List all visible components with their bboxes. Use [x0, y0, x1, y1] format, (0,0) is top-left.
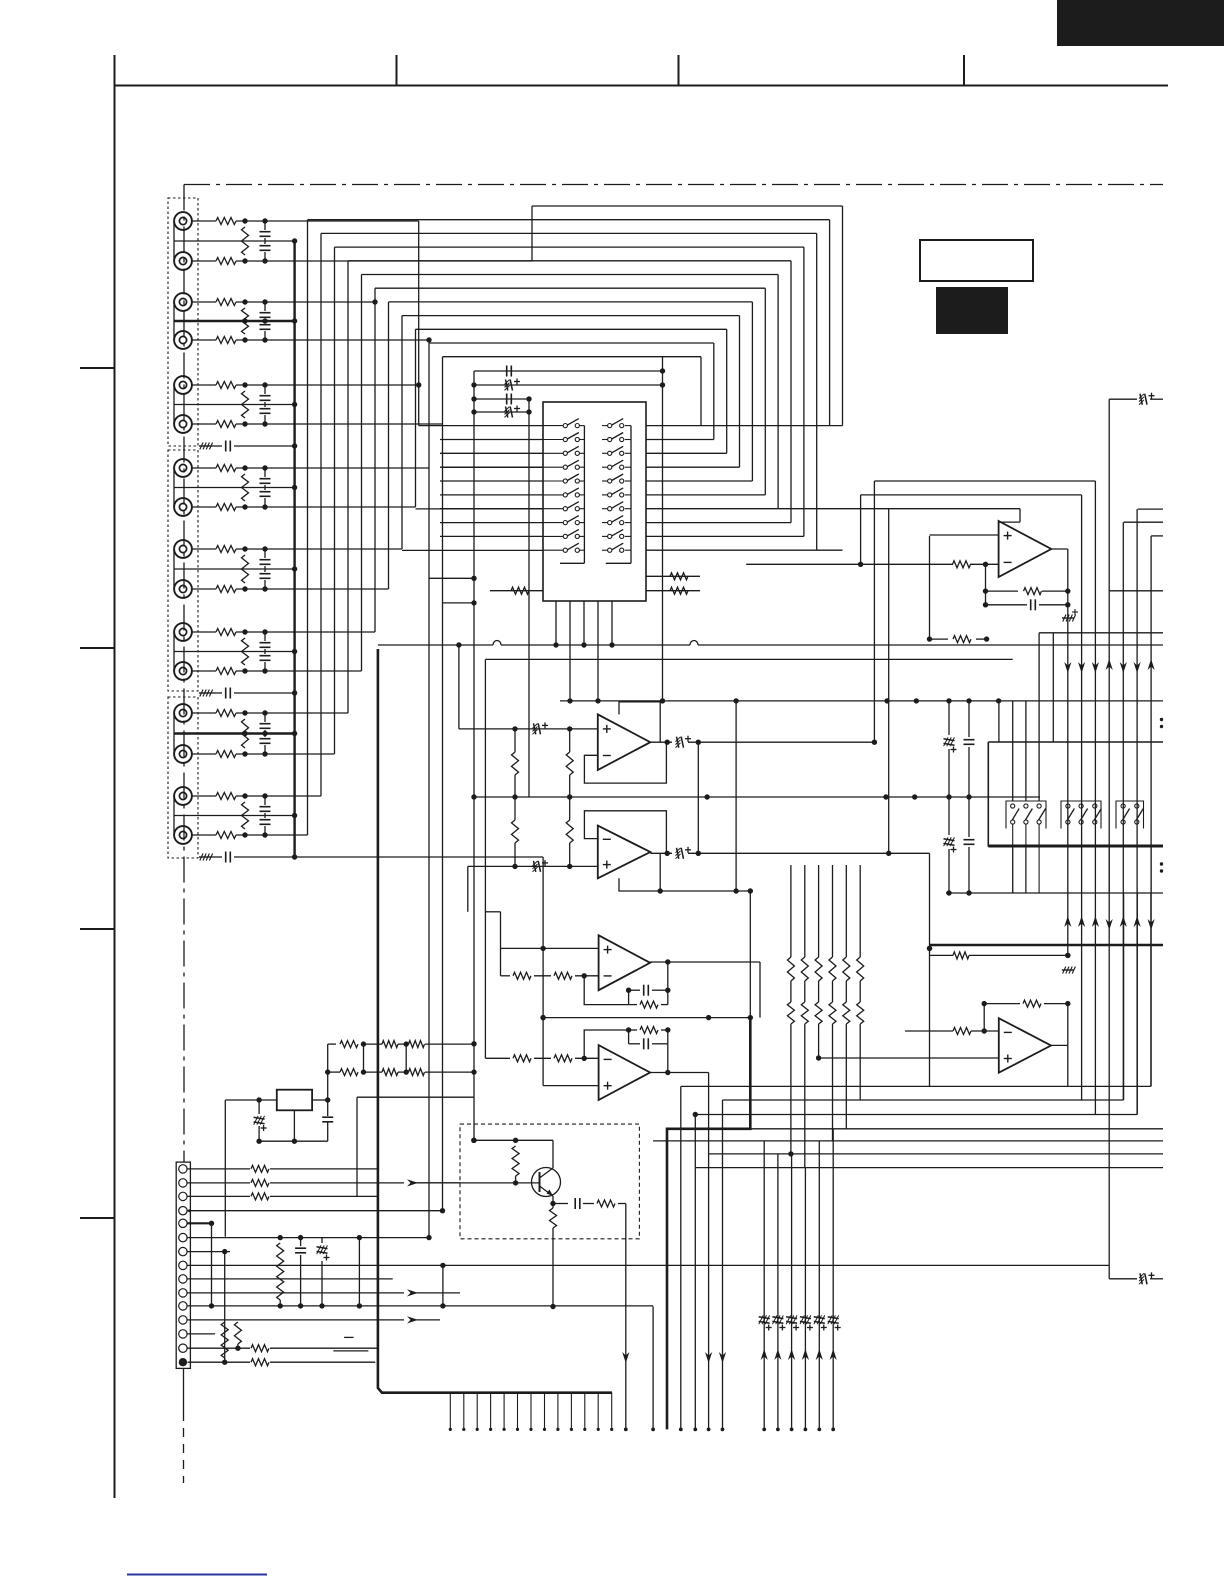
capacitor electrolytic U2a in	[534, 723, 536, 734]
junction jack row y468	[242, 465, 247, 470]
wire nest loop 12 left leg	[442, 357, 444, 424]
arrow bus x1109.2 row1	[1106, 659, 1113, 670]
wire step y536	[1151, 535, 1163, 537]
junction reg row1	[361, 1041, 366, 1046]
capacitor electrolytic link a	[944, 739, 955, 741]
resistor series jack row y302	[216, 299, 236, 306]
wire nest loop 10 right leg	[726, 329, 728, 453]
terminal dot riser x791.6	[790, 1428, 794, 1432]
arrow bus x1081.6 row1	[1078, 662, 1085, 673]
wire U3b minus	[485, 1057, 510, 1059]
wire long vertical x442.5	[442, 424, 444, 1211]
wire bold sum bus	[930, 944, 1164, 947]
wire jack row y261	[192, 260, 217, 262]
wire bold line tap	[929, 948, 931, 1086]
wire link x736.1	[735, 701, 737, 891]
wire IC1 out right y590	[646, 590, 700, 592]
switch IC1 left s10	[543, 549, 563, 551]
capacitor pin6 shunt	[300, 1238, 302, 1246]
wire drop x695.3	[694, 1115, 696, 1430]
RCA jack J6b	[174, 662, 192, 680]
page border top horizontal	[115, 85, 1169, 87]
wire ladder y893	[946, 892, 1163, 894]
wire reg left drop	[224, 1100, 226, 1237]
arrow riser x777.9	[774, 1349, 781, 1360]
capacitor shunt lower pair 5	[264, 569, 266, 572]
RCA jack J5a	[174, 540, 192, 558]
resistor Q1 emitter	[552, 1204, 554, 1209]
resistor array top R6	[859, 865, 861, 957]
wire IC2 col below x1109.2	[1108, 846, 1110, 893]
connector pin 8	[179, 1261, 187, 1269]
terminal dot riser x819.3	[817, 1428, 821, 1432]
switch IC2 x1081.1	[1079, 804, 1083, 808]
switch group bracket	[1006, 801, 1046, 829]
border tick left 1	[80, 367, 115, 369]
junction pair 2 mid	[242, 318, 247, 323]
wire riser x777.9	[777, 1154, 779, 1430]
wire Q1 top rail	[474, 1139, 553, 1141]
wire drop x680.8	[680, 1086, 682, 1429]
wire IC1 input row4 ext	[443, 466, 544, 468]
wire pin5 stub	[188, 1222, 212, 1224]
wire UA minus input	[746, 563, 953, 565]
wire IC1 output row k6	[646, 508, 1020, 510]
capacitor input filter 2	[211, 692, 222, 694]
wire U5 minus	[905, 1030, 953, 1032]
wire nest loop 12 top	[443, 356, 702, 358]
op-amp U3a	[599, 935, 651, 990]
wire comb tooth 8	[544, 1393, 546, 1430]
op-amp U2a	[598, 714, 651, 770]
wire nest loop 9 top	[402, 315, 740, 317]
wire decouple row1	[474, 370, 663, 372]
resistor series jack row y835	[216, 832, 236, 839]
wire comb tooth 5	[503, 1393, 505, 1430]
wire reg feed right	[327, 1044, 329, 1116]
wire IC1 input stub 7	[440, 508, 543, 510]
wire U3b plus	[543, 1085, 599, 1087]
board boundary dash-dot left	[183, 185, 185, 1163]
switch IC1 right s7	[602, 508, 608, 510]
connector pin 5	[179, 1219, 187, 1227]
wire nest loop 1 top	[532, 205, 843, 207]
capacitor decouple C c	[506, 394, 508, 405]
wire bus x1095.4	[1094, 481, 1096, 1115]
connector pin 9	[179, 1275, 187, 1283]
resistor array top R1	[790, 865, 792, 957]
wire bridge U2a out	[873, 481, 875, 742]
resistor series jack row y385	[216, 382, 236, 389]
op-amp U3b	[599, 1045, 651, 1100]
wire pin8 row	[188, 1264, 1110, 1266]
resistor array top R5	[845, 865, 847, 957]
shield bus vertical	[293, 241, 295, 857]
wire plus leg x929.5	[929, 536, 931, 639]
junction reg row2	[361, 1069, 366, 1074]
wire pin15 row	[188, 1361, 251, 1363]
wire jack pair 4 mid line to bus	[174, 487, 295, 489]
resistor array bottom R6	[857, 1002, 864, 1024]
switch IC1 right s4	[602, 466, 608, 468]
wire U3a fb res row	[629, 1004, 637, 1006]
wire reg row links	[363, 1044, 365, 1072]
RCA jack J6a	[174, 623, 192, 641]
wire drop x653.1	[652, 1307, 654, 1430]
resistor series jack row y754	[216, 751, 236, 758]
wire IC2 left drop	[987, 742, 989, 846]
resistor Q1 base pullup	[512, 1146, 519, 1176]
resistor shunt vertical pair 6	[242, 638, 249, 665]
connector CN body	[176, 1162, 190, 1368]
wire row y891	[660, 890, 750, 892]
resistor series jack row y796	[216, 793, 236, 800]
wire jack pair 3 mid line to bus	[174, 404, 295, 406]
switch IC1 left s2	[543, 439, 563, 441]
wire IC2 col below x1151.1	[1150, 846, 1152, 893]
wire rail y700.9	[560, 700, 1163, 702]
wire mix row y955.4	[930, 954, 954, 956]
wire IC1 output row y536	[646, 535, 804, 537]
wire Q1 emitter row	[553, 1203, 568, 1205]
wire IC1 input stub 2	[440, 439, 543, 441]
wire comb tooth 12	[597, 1393, 599, 1430]
wire Q1 emitter node	[550, 1201, 555, 1206]
resistor series jack row y261	[216, 258, 236, 265]
terminal dot x722.5	[721, 1428, 725, 1432]
wire nest loop 8 top	[389, 301, 753, 303]
wire jack pair 8 stems	[173, 796, 175, 835]
wire pin14 row	[188, 1347, 251, 1349]
connector pin 10	[179, 1289, 187, 1297]
wire stub y602.9	[443, 602, 475, 604]
wire nest loop 5 right leg	[790, 261, 792, 523]
wire x1109 to electrolytic	[1109, 1278, 1137, 1280]
wire vertical x662.5 drop	[662, 357, 664, 701]
wire UA output	[1051, 548, 1068, 550]
arrow bus x1151.1 row1	[1148, 659, 1155, 670]
wire ladder x1012.7	[1012, 701, 1014, 801]
resistor series jack row y549	[216, 546, 236, 553]
wire reg out right	[312, 1099, 328, 1101]
wire IC1 out right y576	[646, 575, 700, 577]
terminal dot x653.1	[651, 1428, 655, 1432]
junction jack row y340	[242, 337, 247, 342]
wire nest loop 11 right leg	[713, 343, 715, 440]
wire IC1 input stub 3	[440, 452, 543, 454]
wire U5 fb top	[983, 1004, 985, 1031]
wire nest loop 6 right leg	[777, 275, 779, 509]
ground input filter 1	[199, 445, 211, 447]
wire jack row y507	[192, 506, 217, 508]
resistor IC1 out left	[511, 587, 529, 594]
wire jack pair 5 stems	[173, 549, 175, 589]
wire nest loop 7 left leg	[374, 288, 376, 632]
arrow riser x805.4	[802, 1349, 809, 1360]
capacitor link a	[964, 739, 975, 741]
wire jack row y424	[192, 423, 217, 425]
wire IC1 output row y453	[646, 452, 727, 454]
voltage regulator VR1	[277, 1090, 312, 1111]
arrow drop x625.8	[622, 1352, 629, 1363]
junction jack row y302	[242, 299, 247, 304]
wire IC1 output row y495	[646, 494, 765, 496]
junction UA bias	[927, 636, 932, 641]
wire nest loop 4 right leg	[803, 247, 805, 536]
resistor array bottom R2	[801, 1002, 808, 1024]
junction jack row y589	[242, 586, 247, 591]
wire IC1 input stub 9	[440, 535, 543, 537]
terminal dot x708.6	[707, 1428, 711, 1432]
terminal dot riser x764.2	[762, 1428, 766, 1432]
wire IC1 input stub 6	[440, 494, 543, 496]
RCA jack J2b	[174, 331, 192, 349]
resistor pin6 shunt	[277, 1243, 284, 1300]
wire nest loop 6 left leg	[361, 275, 363, 672]
wire bold mix bus	[667, 1018, 750, 1430]
wire U5 out up	[1067, 1045, 1069, 1086]
wire U2b plus input	[468, 865, 598, 867]
arrow bus x1123.3 row1	[1120, 662, 1127, 673]
wire U3 left feeds	[500, 912, 502, 976]
wire U3 plus link	[542, 857, 544, 1086]
RCA jack J1b	[174, 252, 192, 270]
wire IC1 output row y550	[646, 549, 843, 551]
resistor series jack row y221	[216, 218, 236, 225]
wire jack row y302	[192, 301, 217, 303]
bus continuation colon top	[1160, 718, 1163, 721]
switch IC2 x1136.8	[1135, 804, 1139, 808]
terminal dot x695.3	[693, 1428, 697, 1432]
wire jack row y671	[192, 670, 217, 672]
wire step y509	[1138, 508, 1163, 510]
wire U2a top loop	[619, 702, 660, 742]
wire jack pair 3 stems	[173, 385, 175, 424]
border tick left 3	[80, 928, 115, 930]
RCA jack J3a	[174, 376, 192, 394]
RCA jack J3b	[174, 415, 192, 433]
electrolytic sym x764.2	[759, 1317, 770, 1319]
connector pin 3	[179, 1192, 187, 1200]
wire hop a	[493, 641, 501, 646]
resistor shunt vertical pair 2	[242, 308, 249, 334]
junction IC1 drops	[553, 642, 558, 647]
wire nest loop 7 right leg	[764, 288, 766, 495]
op-amp U5	[999, 1018, 1051, 1072]
resistor series jack row y671	[216, 668, 236, 675]
wire jack row y713	[192, 712, 217, 714]
arrow bus x1067.8 row2	[1064, 916, 1071, 927]
RCA jack J8b	[174, 826, 192, 844]
wire ladder x1039.1	[1038, 633, 1040, 801]
junction jack row y507	[242, 504, 247, 509]
wire IC2 col below x1012.7	[1012, 846, 1014, 893]
wire IC1 common bar left	[583, 426, 585, 564]
resistor array bottom R5	[843, 1002, 850, 1024]
border tick left 2	[80, 647, 115, 649]
wire U5 plus	[819, 1057, 999, 1059]
wire pin1 row	[188, 1168, 251, 1170]
junction fan T1	[372, 299, 377, 304]
wire U3a fb verticals	[628, 990, 630, 1004]
wire supply top	[1109, 398, 1137, 400]
wire reg left	[225, 1099, 276, 1101]
wire IC1 input stub 8	[440, 522, 543, 524]
wire vertical x529	[528, 399, 530, 797]
connector pin 15	[179, 1358, 187, 1366]
wire jack pair 1 stems	[173, 221, 175, 261]
wire reg bottom row	[259, 1140, 328, 1142]
wire rail y1017.6	[543, 1017, 750, 1019]
switch IC1 right s5	[602, 480, 608, 482]
connector pin 11	[179, 1302, 187, 1310]
wire drop x625.8	[625, 1204, 627, 1430]
capacitor decouple C a	[506, 366, 508, 377]
wire reg row1	[328, 1043, 336, 1045]
wire U3a fb cap row	[629, 989, 640, 991]
resistor shunt vertical pair 1	[242, 227, 249, 255]
label white box	[920, 240, 1033, 281]
wire nest loop 8 left leg	[388, 302, 390, 589]
wire feed x485.4	[484, 659, 486, 1058]
wire U3a fb	[584, 976, 628, 1005]
resistor array bottom R1	[787, 1002, 794, 1024]
wire comb tooth 3	[476, 1393, 478, 1430]
junction rail y700.9	[733, 698, 738, 703]
switch IC1 right s6	[602, 494, 608, 496]
wire UA fb res row	[986, 590, 1019, 592]
arrow drop x708.6	[705, 1352, 712, 1363]
capacitor shunt lower pair 7	[264, 734, 266, 738]
capacitor electrolytic pin6 shunt	[321, 1238, 323, 1243]
label black box	[936, 287, 1008, 334]
wire row y1167.6	[695, 1167, 1163, 1169]
capacitor electrolytic decouple b	[506, 380, 508, 391]
electrolytic sym x819.3	[814, 1317, 825, 1319]
wire IC2 lower corners	[1150, 893, 1152, 1086]
wire rail y797	[474, 796, 1040, 798]
switch IC2 g1 x1039.1	[1037, 804, 1041, 808]
wire UA bias row	[930, 638, 949, 640]
wire rail y659.4	[485, 658, 1012, 660]
electrolytic sym x791.6	[786, 1317, 797, 1319]
wire reg gnd stub	[293, 1110, 295, 1141]
wire pin7 row	[188, 1251, 231, 1253]
analog switch IC1 body	[543, 402, 646, 601]
wire output link vertical	[697, 742, 699, 853]
wire U5 fb right	[1067, 1004, 1069, 1046]
wire jack row y632	[192, 631, 217, 633]
arrow bus x1095.4 row1	[1092, 662, 1099, 673]
connector pin 2	[179, 1179, 187, 1187]
capacitor input filter 3	[211, 856, 222, 858]
terminal dot x680.8	[679, 1428, 683, 1432]
wire pin9 row	[188, 1278, 393, 1280]
capacitor shunt upper pair 3	[264, 385, 266, 394]
switch IC1 right s10	[602, 549, 608, 551]
switch IC2 g1 x1025.9	[1024, 804, 1028, 808]
wire U2a feedback	[584, 742, 666, 783]
resistor series jack row y507	[216, 504, 236, 511]
wire pin4 row	[188, 1210, 443, 1212]
resistor divider left upper	[514, 729, 516, 752]
wire U3a plus	[501, 947, 599, 949]
wire nest loop 2 right leg	[829, 220, 831, 426]
wire hop b	[690, 641, 698, 646]
switch IC1 right s9	[602, 535, 608, 537]
resistor series jack row y589	[216, 586, 236, 593]
connector pin 7	[179, 1247, 187, 1255]
wire nest loop 6 top	[362, 274, 779, 276]
junction pair 7 mid	[242, 731, 247, 736]
wire decouple row3	[474, 398, 529, 400]
capacitor electrolytic supply top	[1140, 394, 1142, 405]
arrow riser x791.6	[788, 1349, 795, 1360]
arrow drop x722.5	[719, 1352, 726, 1363]
input jack group dotted box 3	[168, 697, 198, 858]
wire nest loop 1 left leg	[531, 206, 533, 261]
arrow riser x819.3	[816, 1349, 823, 1360]
wire ladder x1053.3	[1052, 633, 1054, 742]
electrolytic sym x833.2	[828, 1317, 839, 1319]
wire reg row2	[328, 1071, 340, 1073]
wire jack row y385	[192, 384, 217, 386]
resistor IC1 out right b	[670, 587, 688, 594]
arrow riser x764.2	[761, 1349, 768, 1360]
wire U3a minus	[501, 975, 511, 977]
switch IC1 right s2	[602, 439, 608, 441]
op-amp UA	[999, 521, 1052, 577]
wire bus x1123.3	[1122, 522, 1124, 1100]
arrow bus x1123.3 row2	[1120, 916, 1127, 927]
wire row y1153.9	[709, 1153, 1163, 1155]
wire pin7 drop	[224, 1252, 226, 1363]
wire comb tooth 13	[611, 1393, 613, 1430]
junction divider mid	[512, 794, 517, 799]
switch IC2 g1 x1012.7	[1011, 804, 1015, 808]
resistor series jack row y632	[216, 629, 236, 636]
resistor shunt vertical pair 8	[242, 802, 249, 829]
wire jack row y221	[192, 220, 217, 222]
wire pin6 row	[188, 1237, 430, 1239]
wire U2b out drop	[929, 853, 931, 948]
switch IC1 left s1	[543, 425, 563, 427]
pin4 mark	[188, 1209, 191, 1212]
bus continuation colon bottom	[1160, 862, 1163, 865]
resistor pin12 shunt a	[221, 1322, 228, 1358]
capacitor shunt lower pair 3	[264, 405, 266, 408]
resistor IC1 out right a	[670, 573, 688, 580]
wire IC1 output row y467	[646, 466, 740, 468]
wire jack row y754	[192, 753, 217, 755]
wire IC1 input row7 ext	[416, 508, 544, 510]
wire U3b fb cap row	[629, 1043, 640, 1045]
electrolytic sym x777.9	[772, 1317, 783, 1319]
junction jack row y385	[242, 382, 247, 387]
wire jack pair 1 mid line to bus	[174, 240, 295, 242]
resistor divider right lower	[569, 797, 571, 820]
wire decouple row4	[474, 411, 529, 413]
arrow bus x1137.1 row1	[1134, 662, 1141, 673]
wire U3b fb res row	[629, 1029, 637, 1031]
connector pin 13	[179, 1330, 187, 1338]
switch IC1 left s7	[543, 508, 563, 510]
wire cap link x949	[948, 701, 950, 735]
wire bus x1067.8	[1067, 549, 1069, 955]
page border left vertical	[114, 55, 116, 1498]
capacitor shunt upper pair 4	[264, 468, 266, 477]
resistor UA in	[953, 561, 971, 568]
